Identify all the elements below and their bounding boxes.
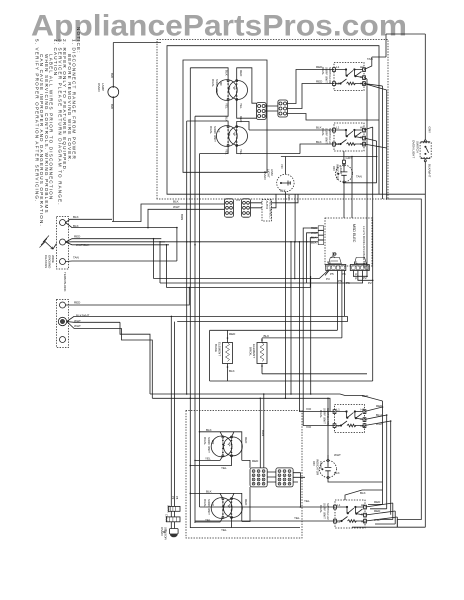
- fuse F2: [166, 517, 180, 529]
- connector block CB4: [276, 468, 293, 487]
- svg-text:YEL: YEL: [205, 457, 211, 461]
- svg-text:P: P: [360, 75, 362, 79]
- svg-text:H2: H2: [361, 520, 365, 524]
- svg-text:BLK: BLK: [316, 140, 322, 144]
- wires lower bus pair across middle: [150, 393, 383, 411]
- svg-text:YEL: YEL: [294, 516, 300, 520]
- svg-text:SWITCH LR: SWITCH LR: [326, 503, 330, 520]
- svg-text:SURF UNIT: SURF UNIT: [323, 408, 327, 424]
- pin labels control strips: [326, 261, 372, 286]
- svg-text:CHASSIS: CHASSIS: [44, 255, 48, 268]
- label connector wires: [252, 430, 265, 463]
- svg-text:H2: H2: [360, 142, 364, 146]
- connector block CB2: [278, 100, 288, 117]
- convection fan motor M1 (dashed): [277, 156, 378, 399]
- middle distribution verticals: [186, 68, 200, 528]
- svg-text:VIO: VIO: [280, 164, 284, 168]
- surface unit enclosure box: [183, 60, 267, 172]
- label harness: [265, 189, 286, 220]
- wires infinite switch IS2: [249, 90, 388, 509]
- wires from connector pair to right: [251, 194, 299, 208]
- svg-text:LIGHT: LIGHT: [339, 166, 343, 175]
- svg-text:BLK: BLK: [264, 334, 270, 338]
- svg-text:P1: P1: [354, 261, 358, 265]
- label chassis ground: [44, 255, 55, 269]
- label broil element: [249, 334, 270, 358]
- wires oven elements: [210, 330, 373, 381]
- label fuse F2: [165, 514, 169, 522]
- wires infinite switch IS4: [195, 490, 397, 527]
- wire feeds to oven sensor fuse: [171, 316, 174, 506]
- label motor M1: [263, 164, 291, 201]
- svg-text:L1: L1: [336, 126, 340, 130]
- wires connector blocks bottom: [260, 393, 306, 508]
- svg-text:SURF UNIT: SURF UNIT: [215, 79, 219, 95]
- label MSD input pins: [311, 226, 318, 244]
- label MSD ELEC: [352, 224, 366, 269]
- svg-text:DUAL: DUAL: [211, 79, 215, 87]
- svg-text:GROUND: GROUND: [48, 255, 52, 269]
- connector block CB1: [257, 103, 267, 120]
- svg-text:DUAL: DUAL: [203, 499, 207, 507]
- label bake element: [214, 332, 236, 373]
- broil element R2: [257, 338, 267, 374]
- svg-text:BRN: BRN: [180, 214, 184, 220]
- oven light switch S2: [420, 34, 431, 527]
- chassis ground symbol: [40, 236, 57, 250]
- wires terminal block TB1 fanout: [66, 219, 178, 261]
- label fuse F1: [167, 496, 180, 513]
- MSD terminal strip A: [326, 258, 346, 271]
- svg-text:P8: P8: [175, 496, 179, 500]
- svg-text:WHT: WHT: [173, 205, 180, 209]
- svg-text:BLK/WHT: BLK/WHT: [427, 164, 431, 178]
- oven cavity feed lines: [171, 316, 347, 321]
- wires dual surface unit U4: [190, 487, 251, 528]
- svg-text:BRN: BRN: [261, 430, 265, 436]
- svg-text:WHT: WHT: [311, 231, 318, 235]
- svg-text:P6: P6: [342, 272, 346, 276]
- svg-text:LF: LF: [217, 129, 221, 133]
- svg-text:LIGHT: LIGHT: [267, 169, 271, 178]
- svg-text:BLK: BLK: [173, 200, 179, 204]
- section3 rear cooktop box: [186, 411, 302, 539]
- svg-text:LAMP: LAMP: [101, 83, 105, 91]
- wire indicator IL1 drop into control: [343, 156, 353, 218]
- svg-text:BLK: BLK: [206, 489, 212, 493]
- svg-text:RED: RED: [239, 70, 243, 77]
- svg-text:RF: RF: [219, 82, 223, 86]
- svg-text:OVEN LIGHT: OVEN LIGHT: [412, 140, 416, 158]
- indicator light IL1: [336, 151, 377, 183]
- dual surface unit left front U2: [216, 126, 247, 147]
- svg-text:BLK/WHT: BLK/WHT: [76, 314, 90, 318]
- svg-text:L1: L1: [337, 408, 341, 412]
- svg-text:P9: P9: [171, 496, 175, 500]
- svg-text:BAKE: BAKE: [214, 344, 218, 352]
- dual surface unit right rear U3: [211, 436, 242, 457]
- svg-text:P2: P2: [363, 276, 367, 280]
- svg-text:RED: RED: [244, 499, 248, 506]
- label indicator light IL1: [332, 156, 362, 181]
- oven sensor probe: [163, 529, 178, 538]
- svg-text:L1: L1: [337, 503, 341, 507]
- svg-text:RED: RED: [239, 116, 243, 123]
- svg-text:ON: ON: [312, 461, 316, 466]
- svg-text:P1: P1: [355, 277, 359, 281]
- svg-text:OVEN: OVEN: [160, 527, 164, 536]
- bake element R1: [223, 330, 233, 381]
- door latch symbol inside control: [331, 252, 339, 261]
- svg-text:WHT: WHT: [74, 324, 81, 328]
- svg-text:P5: P5: [327, 261, 331, 265]
- svg-text:RED: RED: [229, 332, 236, 336]
- main harness bus staircase RED WHT WHT/BLK: [153, 194, 363, 287]
- svg-text:P6: P6: [346, 281, 350, 285]
- harness label box: [262, 200, 272, 222]
- wires dual surface unit U1: [190, 68, 256, 118]
- infinite switch IS1: [333, 63, 366, 91]
- wire L1 run to right bus: [379, 193, 425, 195]
- right vertical bus wires top section: [373, 90, 387, 509]
- wire bottom run of rear section: [232, 527, 301, 529]
- wires dual surface unit U3: [190, 431, 251, 468]
- wire mid vertical: [290, 241, 292, 395]
- svg-text:P3: P3: [326, 277, 330, 281]
- svg-text:SURF UNIT: SURF UNIT: [325, 128, 329, 144]
- svg-text:SWITCH RF: SWITCH RF: [328, 67, 332, 84]
- section1 outer dotted box: [157, 40, 388, 200]
- label wires BLK WHT: [173, 198, 241, 220]
- svg-text:P5: P5: [338, 279, 342, 283]
- svg-text:DUAL: DUAL: [319, 505, 323, 513]
- label wires below MSD: [330, 272, 367, 280]
- svg-text:BLK: BLK: [73, 215, 79, 219]
- label oven light switch: [412, 127, 432, 178]
- svg-text:SURF UNIT: SURF UNIT: [213, 126, 217, 142]
- svg-text:5. VERIFY PROPER OPERATION AF: 5. VERIFY PROPER OPERATION AFTER SERVICI…: [35, 39, 40, 203]
- svg-text:DUAL: DUAL: [319, 410, 323, 418]
- svg-text:L2: L2: [336, 142, 340, 146]
- svg-text:P: P: [360, 136, 362, 140]
- svg-text:BW: BW: [110, 73, 114, 78]
- svg-text:YEL: YEL: [221, 466, 227, 470]
- label infinite switch IS2: [316, 126, 332, 145]
- wire oven lamp feed from top: [113, 43, 161, 222]
- svg-text:BROIL: BROIL: [249, 347, 253, 356]
- svg-text:L1: L1: [336, 65, 340, 69]
- right-center vertical bus wires: [299, 241, 335, 426]
- svg-text:VIO: VIO: [306, 425, 312, 429]
- label dual surface unit U3: [203, 428, 248, 470]
- dual surface unit right front U1: [216, 80, 247, 101]
- svg-text:BLK: BLK: [206, 428, 212, 432]
- svg-text:H2: H2: [360, 82, 364, 86]
- svg-text:L2: L2: [337, 424, 341, 428]
- label oven sensor probe: [160, 527, 168, 541]
- svg-text:CONN: CONN: [167, 505, 171, 513]
- svg-text:YEL: YEL: [221, 528, 227, 532]
- svg-text:BLK: BLK: [334, 471, 340, 475]
- label dual surface unit U2: [209, 116, 243, 155]
- indicator light IL2: [320, 455, 346, 482]
- connector pair CP1: [225, 199, 234, 217]
- svg-text:MSD ELEC: MSD ELEC: [352, 224, 356, 243]
- svg-text:3 0: 3 0: [236, 198, 241, 202]
- wires infinite switch IS3: [365, 406, 392, 515]
- svg-text:TAN: TAN: [73, 256, 79, 260]
- wires below MSD strips: [325, 271, 373, 338]
- svg-text:TERM BLOCK: TERM BLOCK: [63, 272, 67, 292]
- svg-text:H2: H2: [361, 424, 365, 428]
- svg-text:SWITCH LF: SWITCH LF: [328, 128, 332, 144]
- svg-text:P: P: [361, 513, 363, 517]
- svg-text:P2: P2: [368, 281, 372, 285]
- svg-text:RED: RED: [316, 80, 323, 84]
- label terminal block TB2 wires: [74, 301, 90, 329]
- label dual surface unit U4: [203, 489, 248, 532]
- svg-text:H1: H1: [360, 126, 364, 130]
- svg-text:H1: H1: [361, 503, 365, 507]
- svg-text:BW: BW: [110, 104, 114, 109]
- svg-text:ELEMENT: ELEMENT: [218, 342, 222, 356]
- notice text block (rotated service notes): [35, 27, 81, 227]
- svg-text:LIGHT: LIGHT: [319, 461, 323, 470]
- svg-text:YEL: YEL: [304, 499, 310, 503]
- svg-text:L1 L2 N DOOR LATCH BAKE BROIL: L1 L2 N DOOR LATCH BAKE BROIL: [362, 226, 366, 269]
- svg-text:SWITCH: SWITCH: [416, 141, 420, 153]
- wire BLK to connector pair: [112, 204, 225, 228]
- svg-text:YEL: YEL: [239, 103, 243, 109]
- infinite switch IS3: [333, 405, 366, 433]
- svg-text:ELEMENT: ELEMENT: [252, 344, 256, 358]
- svg-text:P: P: [361, 417, 363, 421]
- MSD input connector pins: [318, 226, 323, 245]
- svg-text:P5: P5: [330, 272, 334, 276]
- svg-text:RED: RED: [374, 500, 381, 504]
- svg-text:ON: ON: [332, 166, 336, 171]
- svg-text:RED: RED: [362, 394, 369, 398]
- label infinite switch IS4: [294, 491, 381, 522]
- svg-text:L2: L2: [336, 82, 340, 86]
- dual surface unit left rear U4: [211, 498, 242, 519]
- svg-text:ASM: ASM: [270, 169, 274, 176]
- label infinite switch IS3: [306, 394, 383, 429]
- svg-text:YEL: YEL: [205, 518, 211, 522]
- wires dual surface unit U2: [187, 121, 300, 154]
- svg-text:WIRE: WIRE: [51, 255, 55, 263]
- wire WHT straight run across middle: [160, 241, 318, 243]
- bottom right corner bus wires: [345, 482, 387, 509]
- svg-text:VIO: VIO: [306, 407, 312, 411]
- pin labels infinite switch IS1: [336, 65, 365, 524]
- infinite switch IS4: [334, 500, 367, 528]
- MSD terminal strip B: [350, 258, 369, 271]
- svg-text:CONN: CONN: [165, 514, 169, 522]
- svg-text:RED: RED: [311, 226, 318, 230]
- svg-text:SURF UNIT: SURF UNIT: [323, 503, 327, 519]
- svg-text:OVEN: OVEN: [97, 83, 101, 92]
- section1 inner box: [167, 46, 379, 195]
- top bus wire over to right border: [386, 33, 425, 35]
- svg-text:RED: RED: [252, 459, 259, 463]
- oven lamp: [108, 86, 119, 98]
- svg-text:INDICATOR: INDICATOR: [316, 459, 320, 476]
- svg-text:SENSOR: SENSOR: [164, 527, 168, 541]
- svg-text:WHT: WHT: [334, 453, 341, 457]
- svg-text:H1: H1: [360, 65, 364, 69]
- svg-text:RECONNECT: RECONNECT: [269, 201, 273, 220]
- svg-text:YEL: YEL: [239, 149, 243, 155]
- svg-text:BLK: BLK: [311, 240, 317, 244]
- label infinite switch IS1: [316, 57, 373, 84]
- svg-text:INDICATOR: INDICATOR: [336, 164, 340, 181]
- wires terminal block TB2 fanout: [66, 287, 191, 399]
- svg-text:SURF UNIT: SURF UNIT: [325, 67, 329, 83]
- label indicator light IL2: [312, 453, 341, 476]
- svg-text:SWITCH RR: SWITCH RR: [326, 408, 330, 426]
- svg-text:SURF UNIT: SURF UNIT: [207, 499, 211, 515]
- svg-text:L2: L2: [337, 520, 341, 524]
- terminal block TB1: [57, 217, 69, 270]
- svg-text:H1: H1: [361, 408, 365, 412]
- terminal block TB2: [57, 300, 69, 348]
- svg-text:BLK: BLK: [360, 491, 366, 495]
- infinite switch IS2: [333, 123, 366, 151]
- svg-text:OVEN: OVEN: [263, 171, 267, 180]
- svg-text:BRN: BRN: [287, 195, 291, 201]
- svg-text:RED: RED: [74, 301, 81, 305]
- svg-text:AppliancePartsPros.com: AppliancePartsPros.com: [31, 9, 407, 42]
- svg-text:RED: RED: [316, 65, 323, 69]
- svg-text:SURF UNIT: SURF UNIT: [207, 437, 211, 453]
- svg-text:DUAL: DUAL: [209, 126, 213, 134]
- label dual surface unit U1: [211, 70, 243, 109]
- connector block CB3: [250, 468, 267, 487]
- label terminal block TB1: [63, 215, 89, 292]
- right border bus bottom corner: [397, 526, 425, 528]
- wires connector blocks top section: [266, 70, 379, 121]
- svg-text:BLK: BLK: [311, 236, 317, 240]
- svg-text:RED: RED: [244, 437, 248, 444]
- svg-text:GRY: GRY: [427, 127, 431, 133]
- svg-text:DUAL: DUAL: [203, 437, 207, 445]
- svg-text:BLK: BLK: [316, 126, 322, 130]
- svg-text:AUTO: AUTO: [265, 201, 269, 210]
- fuse F1: [168, 506, 180, 517]
- svg-text:RED: RED: [74, 235, 81, 239]
- svg-text:RED: RED: [374, 509, 381, 513]
- wire L2 run down right side: [388, 199, 421, 520]
- label oven lamp: [97, 73, 114, 109]
- connector pair CP2: [242, 199, 251, 217]
- MSD ELEC control dashed box: [325, 218, 372, 266]
- svg-text:TAN: TAN: [356, 175, 362, 179]
- svg-text:BLK: BLK: [229, 369, 235, 373]
- wires infinite switch IS1: [364, 34, 387, 504]
- wire indicator IL2 feed: [327, 398, 329, 461]
